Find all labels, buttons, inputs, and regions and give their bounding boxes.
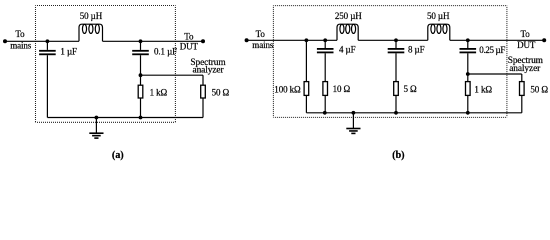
- resistor 1 kΩ (b): [466, 82, 471, 96]
- wire resistor 1k to rail (b): [467, 95, 469, 112]
- node cap 0.25uF junction (b): [466, 38, 470, 42]
- wire node to resistor 1k (a): [140, 75, 142, 85]
- inductor 50 µH (a): [79, 24, 103, 41]
- resistor 50 Ω (a): [201, 85, 206, 98]
- node spectrum branch (a): [139, 73, 143, 77]
- svg-text:1 kΩ: 1 kΩ: [150, 87, 168, 97]
- wire resistor 50 return (a): [202, 98, 204, 118]
- resistor 50 Ω (b): [520, 82, 525, 96]
- wire junction to capacitor 0.25uF (b): [467, 40, 469, 48]
- capacitor 8 µF (b): [388, 48, 405, 50]
- node cap 0.1uF junction (a): [139, 39, 143, 43]
- terminal To mains (a): [3, 39, 7, 43]
- svg-text:DUT: DUT: [180, 42, 199, 52]
- wire coil1 to node 8uF (b): [358, 39, 428, 41]
- junction rail-1k (b): [466, 111, 470, 115]
- svg-text:1 µF: 1 µF: [60, 47, 77, 57]
- terminal To mains (b): [245, 38, 249, 42]
- ground stem (b): [352, 113, 354, 129]
- wire capacitor 1uF to rail (a): [46, 55, 48, 117]
- capacitor 1 µF (a): [39, 50, 56, 52]
- capacitor 4 µF (b): [317, 48, 334, 50]
- ground rail (b): [306, 112, 467, 114]
- wire capacitor 0.25uF to node (b): [467, 53, 469, 74]
- junction rail-10ohm (b): [323, 111, 327, 115]
- node resistor 100k junction (b): [305, 38, 309, 42]
- wire resistor 5 to rail (b): [395, 95, 397, 112]
- wire to resistor 50 (b): [521, 74, 523, 82]
- svg-text:250 µH: 250 µH: [335, 11, 362, 21]
- wire mains input (b): [247, 39, 337, 41]
- svg-text:(b): (b): [392, 150, 404, 161]
- capacitor 0.25 µF (b): [460, 48, 477, 50]
- wire junction to capacitor 8uF (b): [395, 40, 397, 48]
- svg-text:To: To: [521, 29, 531, 39]
- svg-text:mains: mains: [10, 41, 32, 51]
- wire mains input (a): [5, 40, 79, 42]
- svg-text:50 Ω: 50 Ω: [530, 85, 548, 95]
- terminal To DUT (b): [542, 38, 546, 42]
- node cap 4uF junction (b): [323, 38, 327, 42]
- wire capacitor 4uF to resistor 10 (b): [324, 53, 326, 81]
- inductor 50 µH (b): [428, 24, 450, 40]
- svg-text:0.25 µF: 0.25 µF: [479, 45, 505, 55]
- enclosure dashed box (b): [273, 5, 507, 7]
- wire junction to capacitor C 1uF (a): [46, 41, 48, 50]
- wire junction to resistor 100k (b): [305, 40, 307, 81]
- resistor 1 kΩ (a): [138, 85, 143, 98]
- wire capacitor 8uF to resistor 5 (b): [395, 53, 397, 81]
- svg-text:analyzer: analyzer: [193, 66, 225, 76]
- svg-text:mains: mains: [252, 40, 274, 50]
- svg-text:50 Ω: 50 Ω: [212, 87, 230, 97]
- ground symbol (a): [89, 132, 103, 134]
- svg-text:4 µF: 4 µF: [339, 45, 356, 55]
- resistor 100 kΩ (b): [304, 82, 309, 96]
- svg-text:0.1 µF: 0.1 µF: [154, 47, 177, 57]
- svg-text:1 kΩ: 1 kΩ: [474, 85, 492, 95]
- terminal To DUT (a): [201, 39, 205, 43]
- wire junction to capacitor 0.1uF (a): [140, 41, 142, 50]
- junction rail-ground (b): [352, 111, 356, 115]
- enclosure dashed box (a): [36, 5, 176, 7]
- svg-text:To: To: [184, 31, 194, 41]
- resistor 5 Ω (b): [394, 82, 399, 96]
- wire coil2 to DUT (b): [450, 39, 544, 41]
- inductor 250 µH (b): [337, 24, 358, 40]
- svg-text:100 kΩ: 100 kΩ: [274, 85, 301, 95]
- svg-text:DUT: DUT: [517, 40, 536, 50]
- ground symbol (b): [346, 128, 360, 130]
- wire capacitor 0.1uF to node (a): [140, 55, 142, 75]
- wire inductor to DUT (a): [103, 40, 204, 42]
- svg-text:To: To: [256, 29, 266, 39]
- svg-text:analyzer: analyzer: [509, 64, 541, 74]
- wire to resistor 50 (a): [202, 75, 204, 85]
- svg-text:5 Ω: 5 Ω: [404, 84, 418, 94]
- ground rail (a): [47, 117, 140, 119]
- ground stem (a): [95, 118, 97, 134]
- wire junction to capacitor 4uF (b): [324, 40, 326, 48]
- wire resistor 1k to rail (a): [140, 98, 142, 118]
- junction rail-5ohm (b): [394, 111, 398, 115]
- node spectrum branch (b): [466, 72, 470, 76]
- node cap 8uF junction (b): [394, 38, 398, 42]
- node cap 1uF junction (a): [46, 39, 50, 43]
- wire resistor 100k to rail (b): [305, 95, 307, 112]
- svg-text:(a): (a): [112, 150, 124, 161]
- svg-text:50 µH: 50 µH: [80, 11, 103, 21]
- wire branch to spectrum analyzer (a): [141, 74, 204, 76]
- wire node to resistor 1k (b): [467, 74, 469, 82]
- svg-text:To: To: [15, 29, 25, 39]
- resistor 10 Ω (b): [323, 82, 328, 96]
- svg-text:50 µH: 50 µH: [427, 11, 450, 21]
- wire resistor 50 return (b): [521, 95, 523, 112]
- junction rail-resistor (a): [139, 116, 143, 120]
- wire resistor 10 to rail (b): [324, 95, 326, 112]
- capacitor 0.1 µF (a): [132, 50, 149, 52]
- svg-text:10 Ω: 10 Ω: [333, 84, 351, 94]
- junction rail-ground (a): [95, 116, 99, 120]
- wire branch to spectrum analyzer (b): [468, 73, 522, 75]
- svg-text:8 µF: 8 µF: [408, 45, 425, 55]
